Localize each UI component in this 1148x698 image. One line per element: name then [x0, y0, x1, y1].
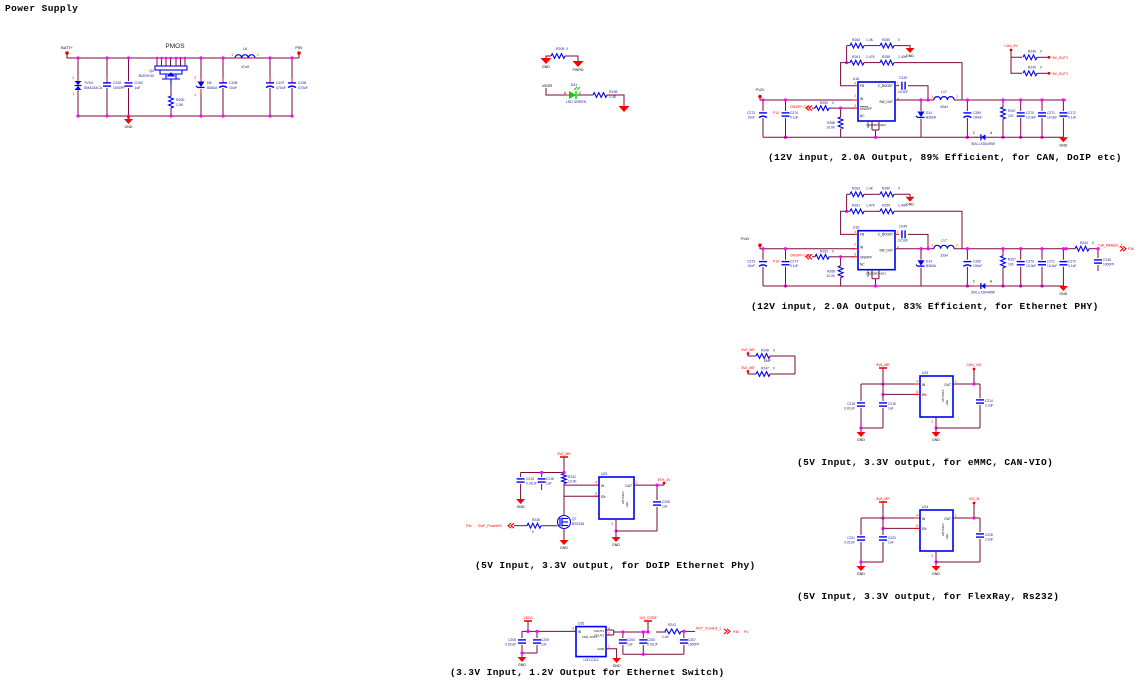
svg-text:GND: GND [932, 572, 940, 576]
svg-text:R246: R246 [1028, 50, 1036, 54]
svg-text:C210: C210 [526, 477, 534, 481]
svg-text:P4: P4 [744, 630, 748, 634]
pulldown resistor R268 10K [840, 108, 842, 117]
svg-text:5V0_MR: 5V0_MR [741, 366, 755, 370]
svg-text:P5V: P5V [295, 46, 303, 50]
svg-text:2: 2 [194, 76, 196, 80]
wire output cap to gnd rail [936, 427, 980, 429]
svg-text:10.0uF: 10.0uF [1047, 264, 1057, 268]
feedback resistors row2 [846, 46, 848, 63]
IC GND pin [935, 417, 937, 432]
svg-text:GND: GND [866, 122, 870, 128]
svg-text:Q7: Q7 [572, 517, 577, 521]
ground GND [128, 116, 130, 119]
svg-text:C269: C269 [973, 111, 981, 115]
svg-text:D14: D14 [926, 111, 932, 115]
svg-text:D14: D14 [926, 260, 932, 264]
svg-text:0.01UF: 0.01UF [647, 643, 658, 647]
IC GND pin to ground [615, 519, 617, 537]
svg-text:0.1uF: 0.1uF [790, 116, 798, 120]
svg-text:GND: GND [866, 270, 870, 276]
svg-text:R244: R244 [1080, 241, 1088, 245]
svg-text:ON/OFF: ON/OFF [860, 256, 872, 260]
svg-text:LDH-C312: LDH-C312 [583, 658, 598, 662]
resistor R243 series output [656, 631, 666, 633]
svg-text:0: 0 [832, 250, 834, 254]
svg-text:3: 3 [854, 104, 856, 108]
svg-text:1: 1 [955, 380, 957, 384]
svg-text:C245: C245 [1103, 258, 1111, 262]
svg-text:(5V Input, 3.3V output, for eM: (5V Input, 3.3V output, for eMMC, CAN-VI… [797, 457, 1053, 468]
svg-text:6: 6 [916, 390, 918, 394]
svg-text:10uF: 10uF [747, 264, 755, 268]
svg-text:DoIP_PowerEN: DoIP_PowerEN [478, 524, 502, 528]
svg-text:TJA_ENABLE_1: TJA_ENABLE_1 [1098, 244, 1123, 248]
capacitor C?? 1uF out [622, 632, 624, 638]
boost capacitor [895, 85, 899, 87]
svg-text:(12V input, 2.0A Output, 89% E: (12V input, 2.0A Output, 89% Efficient, … [768, 152, 1122, 163]
svg-text:1.4K: 1.4K [866, 187, 874, 191]
wire [67, 53, 299, 58]
svg-text:U16: U16 [853, 226, 859, 230]
svg-text:1: 1 [636, 481, 638, 485]
capacitor C216 1uF [541, 473, 543, 478]
svg-text:(12V input, 2.0A Output, 83% E: (12V input, 2.0A Output, 83% Efficient, … [751, 301, 1099, 312]
svg-text:R253: R253 [820, 101, 828, 105]
svg-text:GND: GND [857, 572, 865, 576]
svg-text:B360A: B360A [926, 116, 937, 120]
svg-text:-33E: -33E [945, 400, 949, 406]
svg-text:33uH: 33uH [940, 105, 948, 109]
svg-text:SW_OUT: SW_OUT [879, 100, 893, 104]
ground GND output [1059, 286, 1068, 291]
svg-text:BSS138: BSS138 [572, 522, 584, 526]
svg-text:GND: GND [1059, 292, 1067, 296]
svg-text:SML-LX3044RW: SML-LX3044RW [971, 291, 995, 295]
svg-text:C198: C198 [229, 81, 237, 85]
svg-text:EN: EN [922, 527, 927, 531]
mosfet source to ground [563, 529, 565, 541]
pulldown resistor R268 10K [840, 257, 842, 266]
svg-text:U16: U16 [853, 77, 859, 81]
transistor Q4 PMOS pair [156, 58, 158, 66]
inductor L17 [934, 97, 954, 100]
svg-text:100uF: 100uF [973, 116, 982, 120]
svg-text:U24: U24 [922, 371, 928, 375]
ground GND fb [906, 48, 915, 53]
resistor R205 0 between GND and PWRD [546, 56, 551, 58]
svg-text:TAR_VOLT: TAR_VOLT [582, 635, 597, 639]
svg-text:1: 1 [931, 244, 933, 248]
wire top caps [521, 472, 564, 474]
inductor L6 47uH [230, 57, 235, 59]
ground [518, 657, 527, 662]
svg-text:P12V: P12V [756, 88, 765, 92]
svg-text:GND: GND [560, 546, 568, 550]
capacitor C226 2.2uF [979, 518, 981, 532]
svg-text:DNP: DNP [764, 359, 771, 363]
svg-text:OUT: OUT [944, 383, 951, 387]
svg-text:PMOS: PMOS [165, 43, 185, 50]
svg-text:R261: R261 [852, 204, 860, 208]
svg-text:0: 0 [773, 367, 775, 371]
bottom rail [623, 653, 684, 655]
svg-text:C19C: C19C [135, 81, 144, 85]
svg-text:470uF: 470uF [276, 86, 286, 90]
svg-text:GND: GND [612, 543, 620, 547]
wire fb to right [894, 211, 962, 248]
svg-text:4: 4 [595, 481, 597, 485]
svg-text:2: 2 [611, 522, 613, 526]
svg-text:1: 1 [231, 53, 233, 57]
svg-text:C215: C215 [847, 402, 855, 406]
svg-text:EN: EN [601, 495, 606, 499]
svg-text:C214: C214 [985, 399, 993, 403]
svg-text:0.01UF: 0.01UF [898, 239, 909, 243]
svg-text:C270: C270 [1026, 111, 1034, 115]
svg-text:GND: GND [125, 125, 133, 129]
svg-text:0: 0 [832, 101, 834, 105]
svg-text:1.47K: 1.47K [866, 55, 876, 59]
svg-text:4: 4 [916, 380, 918, 384]
input port P12V [758, 95, 762, 99]
svg-text:U24: U24 [922, 505, 928, 509]
svg-text:4: 4 [854, 82, 856, 86]
svg-text:TVS4: TVS4 [84, 81, 93, 85]
svg-text:C208: C208 [662, 500, 670, 504]
wire [607, 95, 624, 106]
svg-text:2: 2 [956, 244, 958, 248]
svg-text:R259: R259 [882, 204, 890, 208]
svg-text:BATT+: BATT+ [61, 46, 73, 50]
svg-text:CAN_VIO: CAN_VIO [967, 363, 982, 367]
svg-text:R268: R268 [827, 121, 835, 125]
svg-text:D41: D41 [571, 83, 577, 87]
svg-text:R200: R200 [176, 98, 184, 102]
output capacitor 100uF [966, 100, 968, 111]
svg-text:+5V_DUTY: +5V_DUTY [1051, 56, 1069, 60]
output bottom rail [921, 285, 1063, 287]
zener diode D6 B360A [200, 58, 202, 80]
svg-text:R260: R260 [882, 38, 890, 42]
svg-text:4: 4 [854, 230, 856, 234]
svg-text:1.4K: 1.4K [662, 635, 670, 639]
capacitor C206 0.01uF [522, 630, 528, 632]
svg-text:R242: R242 [568, 475, 576, 479]
svg-text:R261: R261 [852, 55, 860, 59]
resistor R200 1.0K [170, 85, 172, 96]
output capacitor 100uF [966, 249, 968, 260]
svg-text:1000PF: 1000PF [1103, 263, 1115, 267]
svg-text:(3.3V Input, 1.2V Output for E: (3.3V Input, 1.2V Output for Ethernet Sw… [450, 667, 725, 678]
svg-text:VIO_M: VIO_M [969, 497, 980, 501]
wire output rail [954, 248, 1066, 250]
svg-text:(5V Input, 3.3V output, for Do: (5V Input, 3.3V output, for DoIP Etherne… [475, 560, 756, 571]
ground GND fb [906, 197, 915, 202]
diode D14 B360A [920, 100, 922, 111]
capacitor C270 10uF [1020, 100, 1022, 111]
svg-text:GND: GND [857, 438, 865, 442]
svg-text:1: 1 [955, 514, 957, 518]
wire fb to right [894, 63, 962, 100]
svg-text:NC: NC [860, 114, 865, 118]
svg-text:C220: C220 [888, 536, 896, 540]
wire SW_OUT [895, 248, 934, 250]
wire [546, 88, 566, 95]
output wire [953, 383, 980, 385]
svg-text:-33E: -33E [625, 502, 629, 508]
svg-text:P14: P14 [773, 260, 779, 264]
svg-text:C221: C221 [847, 536, 855, 540]
ground PWRD right [573, 61, 584, 67]
svg-text:0: 0 [1040, 50, 1042, 54]
svg-text:BUK9Y40: BUK9Y40 [139, 74, 154, 78]
ground [619, 106, 630, 112]
svg-text:C269: C269 [973, 260, 981, 264]
svg-text:C209: C209 [541, 638, 549, 642]
svg-text:C216: C216 [546, 477, 554, 481]
resistor network CAN_5V to 5V_DUTY [1010, 49, 1013, 52]
svg-text:GND: GND [906, 54, 914, 58]
svg-text:U26: U26 [578, 622, 584, 626]
svg-text:0: 0 [898, 187, 900, 191]
svg-text:0.01UF: 0.01UF [844, 541, 855, 545]
wire IN row 1.2V reg [528, 630, 576, 632]
svg-text:FB: FB [860, 84, 864, 88]
capacitor C19C 1uF [128, 58, 130, 81]
svg-text:C272: C272 [1068, 111, 1076, 115]
wire EN tap [883, 518, 920, 528]
svg-text:1uF: 1uF [135, 86, 141, 90]
wire output rail [954, 99, 1066, 101]
wire cap bottom to gnd [861, 427, 883, 429]
LED D41 green [566, 94, 569, 96]
svg-text:C_BOOST: C_BOOST [878, 84, 893, 88]
wire cap bottom to gnd [861, 561, 883, 563]
svg-text:R259: R259 [882, 55, 890, 59]
wire boost to switch node [908, 86, 928, 100]
svg-text:C249: C249 [899, 76, 907, 80]
output bottom rail [921, 136, 1063, 138]
resistor R267 load [1002, 100, 1004, 107]
svg-text:C196: C196 [298, 81, 306, 85]
wire EN tap [883, 384, 920, 394]
wire bottom bus [78, 115, 292, 117]
svg-text:0.01UF: 0.01UF [844, 407, 855, 411]
capacitor C2xx 0.01uF out [642, 632, 644, 638]
svg-text:ON/OFF: ON/OFF [860, 107, 872, 111]
IC ground pins [871, 121, 873, 130]
capacitor C271 10uF [1041, 100, 1043, 111]
svg-text:LED GREEN: LED GREEN [566, 100, 587, 104]
resistor R267 load [1002, 249, 1004, 256]
svg-text:1uF: 1uF [888, 541, 894, 545]
svg-text:0.01UF: 0.01UF [898, 90, 909, 94]
svg-text:C249: C249 [899, 225, 907, 229]
on/off resistor [806, 106, 812, 111]
feedback resistors row2 [846, 194, 848, 211]
svg-text:OUT: OUT [944, 517, 951, 521]
capacitor C216 1uF [882, 394, 884, 401]
capacitor C214 2.2uF [979, 384, 981, 398]
svg-text:0: 0 [1040, 66, 1042, 70]
boost capacitor [895, 233, 899, 235]
svg-text:C_BOOST: C_BOOST [878, 233, 893, 237]
input capacitor C274 [785, 249, 787, 260]
svg-text:6: 6 [595, 492, 597, 496]
capacitor C221 0.01uF [861, 517, 883, 519]
capacitor C220 1uF [882, 528, 884, 535]
LED indicator on rail [974, 136, 978, 138]
svg-text:C274: C274 [790, 111, 798, 115]
svg-text:(5V Input, 3.3V output, for Fl: (5V Input, 3.3V output, for FlexRay, Rs2… [797, 591, 1059, 602]
svg-text:10.0K: 10.0K [826, 126, 835, 130]
svg-text:B360A: B360A [926, 264, 937, 268]
svg-text:C274: C274 [790, 260, 798, 264]
second row [1011, 57, 1022, 73]
svg-text:L17: L17 [941, 90, 947, 94]
svg-text:10.0uF: 10.0uF [1026, 264, 1036, 268]
svg-text:0: 0 [566, 47, 568, 51]
IC GND pin [935, 551, 937, 566]
svg-text:R247: R247 [761, 367, 769, 371]
svg-text:R236: R236 [532, 518, 540, 522]
capacitor C270 10uF [1020, 249, 1022, 260]
IC U23 LDO DoIP [599, 477, 634, 519]
svg-text:EN: EN [922, 393, 927, 397]
svg-text:C207: C207 [688, 638, 696, 642]
capacitor C271 10uF [1041, 249, 1043, 260]
svg-text:1: 1 [608, 645, 610, 649]
ground [857, 432, 866, 437]
svg-text:1.0K: 1.0K [176, 103, 184, 107]
LED indicator on rail [974, 285, 978, 287]
svg-text:0.1uF: 0.1uF [1068, 264, 1076, 268]
svg-text:2: 2 [257, 53, 259, 57]
TVS diode TVS4 [77, 58, 79, 80]
capacitor C272 0.1uF [1062, 249, 1064, 260]
svg-text:C192: C192 [113, 81, 121, 85]
svg-text:33uH: 33uH [940, 254, 948, 258]
svg-text:P36: P36 [733, 630, 739, 634]
svg-text:R260: R260 [882, 187, 890, 191]
wire fb left down to FB pin [841, 63, 855, 86]
svg-text:2: 2 [956, 95, 958, 99]
ground under IC [932, 566, 941, 571]
svg-text:GND: GND [597, 647, 605, 651]
svg-text:OUT: OUT [625, 484, 632, 488]
svg-text:1000PF: 1000PF [688, 643, 700, 647]
svg-text:10uF: 10uF [229, 86, 237, 90]
svg-text:1uF: 1uF [541, 643, 547, 647]
wire [577, 94, 593, 96]
input port P12V [758, 243, 762, 247]
svg-text:D6: D6 [207, 81, 212, 85]
svg-text:R248: R248 [761, 349, 769, 353]
svg-text:1: 1 [897, 230, 899, 234]
svg-text:R268: R268 [827, 270, 835, 274]
svg-text:100uF: 100uF [973, 264, 982, 268]
capacitor C207 1000PF [683, 631, 685, 638]
svg-text:P3x: P3x [466, 524, 472, 528]
output wires merge [606, 629, 614, 631]
buck regulator U16 feedback resistors row1 [847, 45, 850, 47]
svg-text:2: 2 [72, 76, 74, 80]
input bottom rail [763, 285, 921, 287]
svg-text:C272: C272 [1068, 260, 1076, 264]
on/off resistor [806, 254, 812, 259]
svg-text:470uF: 470uF [298, 86, 308, 90]
bottom wire to IC gnd [616, 530, 657, 532]
wire IN [883, 383, 920, 385]
svg-text:VOUT1: VOUT1 [594, 629, 604, 633]
svg-text:PHY_Vcontrol_1: PHY_Vcontrol_1 [696, 627, 721, 631]
svg-text:CAN_5V: CAN_5V [1004, 44, 1018, 48]
capacitor C209 1uF [536, 631, 538, 638]
wire SW_OUT [895, 99, 934, 101]
wire fb left down to FB pin [841, 211, 855, 234]
svg-text:PWRD: PWRD [573, 68, 584, 72]
wire IN row [564, 484, 599, 486]
svg-text:C226: C226 [985, 533, 993, 537]
svg-text:NC: NC [860, 263, 865, 267]
capacitor C198 10uF polarized [222, 58, 224, 81]
svg-text:C273: C273 [747, 260, 755, 264]
svg-text:B360A: B360A [207, 86, 218, 90]
svg-text:1: 1 [194, 93, 196, 97]
svg-text:0: 0 [532, 530, 534, 534]
svg-text:100: 100 [1008, 263, 1014, 267]
svg-text:L17: L17 [941, 239, 947, 243]
diode D14 B360A [920, 249, 922, 260]
svg-text:U23: U23 [601, 472, 607, 476]
svg-text:10.0uF: 10.0uF [1026, 116, 1036, 120]
IC ground pins [871, 270, 873, 279]
svg-text:1V2_CORE: 1V2_CORE [639, 616, 657, 620]
svg-text:R262: R262 [852, 187, 860, 191]
capacitor C194 polarized [269, 58, 271, 81]
input capacitor C273 [762, 100, 764, 111]
capacitor C272 0.1uF [1062, 100, 1064, 111]
svg-text:C197: C197 [276, 81, 284, 85]
svg-text:VDD3: VDD3 [523, 616, 532, 620]
svg-text:1: 1 [72, 92, 74, 96]
svg-text:2: 2 [854, 94, 856, 98]
svg-text:1.40K: 1.40K [898, 204, 908, 208]
inductor L17 [934, 245, 954, 248]
svg-text:P14V: P14V [741, 237, 750, 241]
svg-text:Power Supply: Power Supply [5, 3, 78, 14]
capacitor C215 0.01uF [861, 383, 883, 385]
svg-text:C273: C273 [747, 111, 755, 115]
capacitor C210 0.01uF [520, 473, 522, 478]
svg-text:1.47K: 1.47K [866, 204, 876, 208]
input capacitor C274 [785, 100, 787, 111]
output resistor to TJA_ENABLE [1066, 248, 1075, 250]
output wire ETH_3V [634, 484, 657, 486]
ground [857, 566, 866, 571]
MOSFET Q7 [558, 516, 571, 529]
svg-text:3: 3 [572, 627, 574, 631]
svg-text:C206: C206 [508, 638, 516, 642]
svg-text:R198: R198 [609, 90, 617, 94]
svg-text:1uF: 1uF [627, 643, 633, 647]
input capacitor C273 [762, 249, 764, 260]
IC U16 buck converter [858, 82, 895, 121]
svg-text:5VA_MR: 5VA_MR [876, 497, 890, 501]
svg-text:6: 6 [916, 524, 918, 528]
svg-text:R205: R205 [556, 47, 564, 51]
